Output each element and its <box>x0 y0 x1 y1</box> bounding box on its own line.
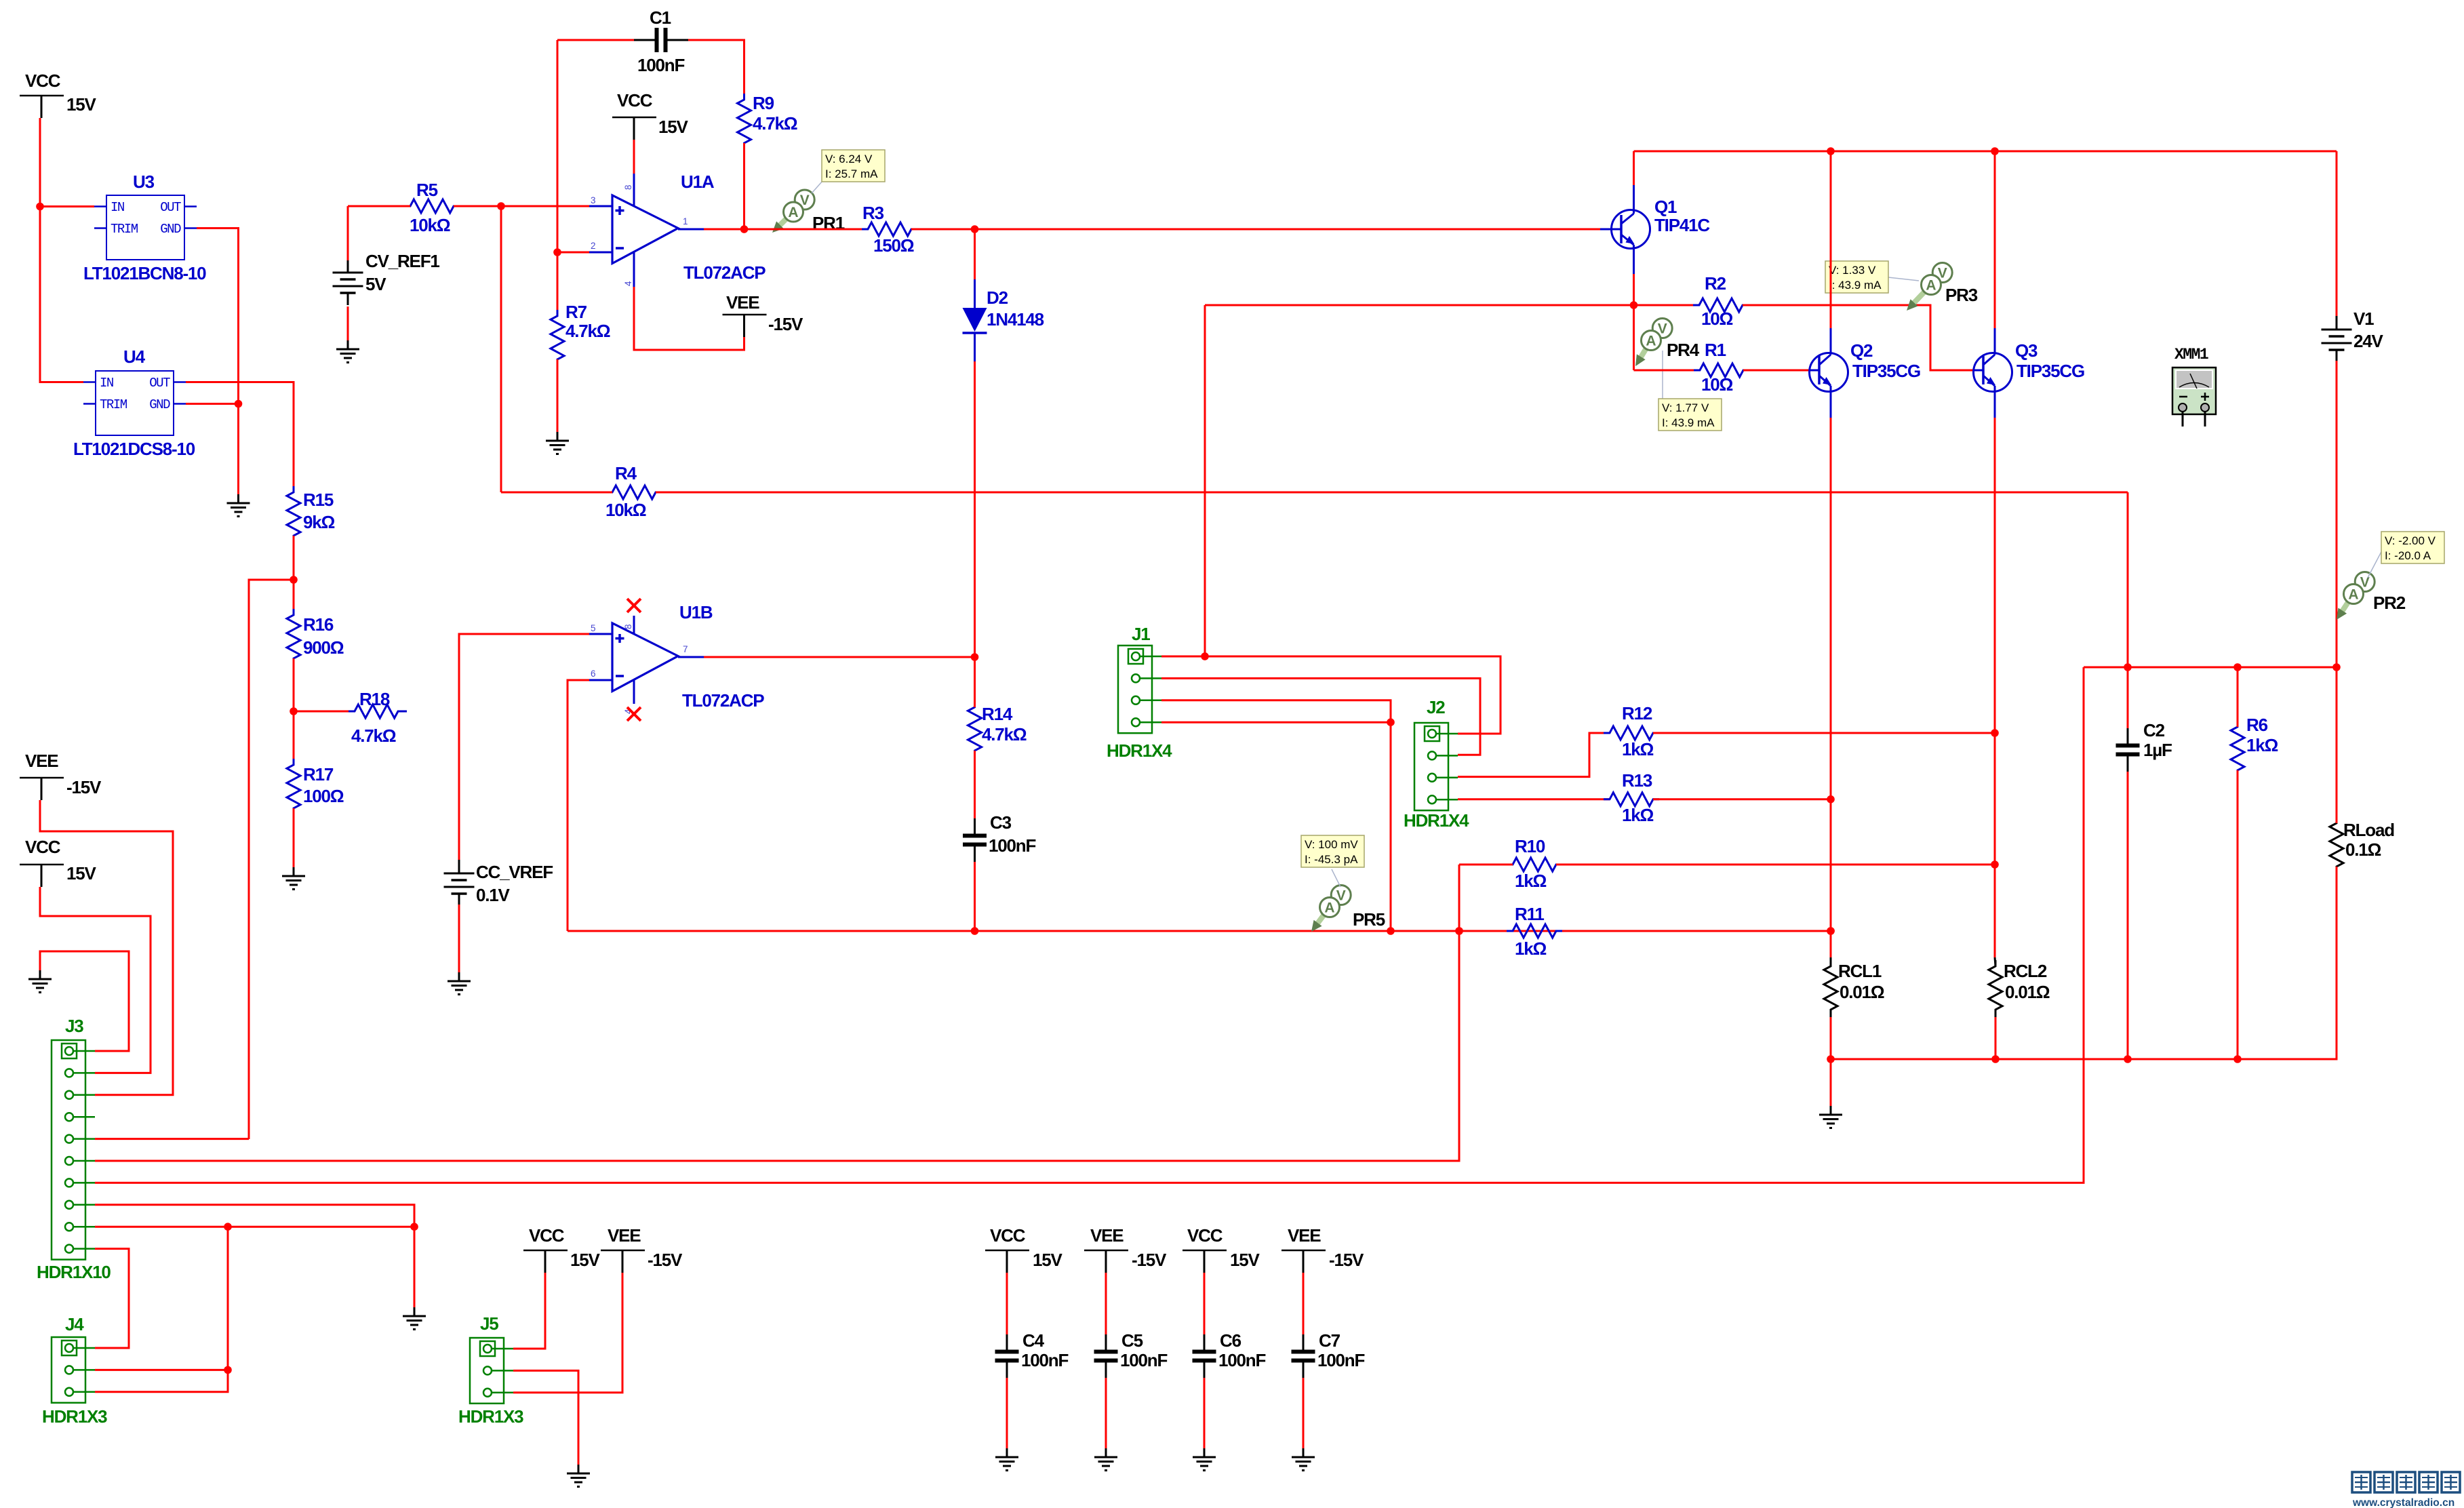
svg-text:6: 6 <box>591 669 596 679</box>
probe PR1 <box>772 190 845 233</box>
svg-text:100nF: 100nF <box>1218 1350 1265 1370</box>
svg-text:R17: R17 <box>303 764 334 785</box>
ground (C7) <box>1292 1448 1315 1471</box>
wire CC_VREF to ground <box>458 905 460 972</box>
op-amp U1B TL072ACP <box>589 602 764 714</box>
no-connect X on U1B pin4 <box>627 707 641 721</box>
wire J3.8 to ground <box>95 1205 418 1307</box>
battery V1 24V <box>2322 309 2384 362</box>
resistor R9 4.7k <box>738 93 797 149</box>
wire RCL1 to return bus <box>1830 1017 1832 1059</box>
svg-text:C2: C2 <box>2143 720 2165 740</box>
svg-text:RCL1: RCL1 <box>1838 961 1882 981</box>
resistor R1 10 <box>1694 340 1749 395</box>
svg-text:HDR1X10: HDR1X10 <box>37 1262 111 1282</box>
resistor R15 9k <box>287 486 335 542</box>
wire J2.4 to R13 <box>1458 798 1610 800</box>
voltage reference U4 LT1021DCS8-10 <box>73 346 195 459</box>
svg-text:GND: GND <box>160 222 181 237</box>
svg-text:VEE: VEE <box>1090 1225 1124 1246</box>
svg-text:9kΩ: 9kΩ <box>303 512 335 532</box>
wire RCL2 to return bus <box>1995 1017 1997 1059</box>
wire positive rail <box>1634 147 2337 155</box>
svg-text:100nF: 100nF <box>1120 1350 1167 1370</box>
svg-text:15V: 15V <box>66 94 97 115</box>
svg-text:100nF: 100nF <box>989 835 1035 856</box>
wire J3.6 to R10 <box>95 865 1463 1161</box>
wire U3.GND and U4.GND to ground <box>186 229 242 495</box>
wire R15 to R16, tap to J3.5 <box>249 536 298 1139</box>
resistor R2 10 <box>1693 273 1749 329</box>
wire Q1 emitter node down <box>1204 305 1206 656</box>
svg-text:HDR1X4: HDR1X4 <box>1107 740 1172 761</box>
svg-text:TL072ACP: TL072ACP <box>683 262 766 283</box>
svg-text:100nF: 100nF <box>1317 1350 1364 1370</box>
transistor Q1 TIP41C <box>1600 185 1710 274</box>
power VCC 15V (U1A) <box>612 90 689 140</box>
wire Q1 emitter to R2/R1 node <box>1630 274 1638 370</box>
power VCC 15V (top left) <box>20 71 97 118</box>
resistor R11 1k <box>1507 904 1562 959</box>
svg-text:100nF: 100nF <box>1021 1350 1068 1370</box>
svg-text:LT1021DCS8-10: LT1021DCS8-10 <box>73 439 195 459</box>
transistor Q2 TIP35CG <box>1810 328 1920 418</box>
transistor Q3 TIP35CG <box>1974 328 2084 418</box>
svg-text:V: 1.77 V: V: 1.77 V <box>1662 401 1709 414</box>
svg-text:7: 7 <box>683 644 688 654</box>
svg-text:I: 43.9 mA: I: 43.9 mA <box>1829 279 1882 292</box>
svg-text:VCC: VCC <box>1187 1225 1223 1246</box>
svg-text:R16: R16 <box>303 614 334 635</box>
svg-text:R14: R14 <box>982 704 1013 724</box>
wire J3.7 to output sense bus <box>95 667 2084 1183</box>
svg-text:PR2: PR2 <box>2373 593 2406 613</box>
resistor R13 1k <box>1604 770 1659 825</box>
ground (J5 pin2) <box>567 1465 590 1487</box>
wire output bus <box>2084 663 2341 671</box>
svg-text:1kΩ: 1kΩ <box>2246 735 2278 755</box>
node junction R5/U1A+ and feedback <box>497 202 589 492</box>
svg-text:15V: 15V <box>1230 1250 1260 1270</box>
svg-text:-15V: -15V <box>768 314 803 334</box>
svg-text:R10: R10 <box>1515 836 1545 856</box>
power VEE -15V (C7) <box>1281 1225 1364 1273</box>
svg-text:R9: R9 <box>753 93 774 113</box>
svg-text:R12: R12 <box>1622 703 1652 723</box>
svg-text:R4: R4 <box>615 463 637 483</box>
svg-text:VEE: VEE <box>25 751 58 771</box>
svg-text:IN: IN <box>111 200 124 215</box>
svg-text:4.7kΩ: 4.7kΩ <box>982 724 1027 745</box>
probe PR4 <box>1635 319 1700 367</box>
capacitor C4 100nF <box>995 1330 1069 1378</box>
wire supply to C6 <box>1204 1273 1206 1338</box>
svg-text:4: 4 <box>623 281 633 286</box>
power VEE -15V (left) <box>20 751 102 800</box>
wire R7 to ground <box>557 359 559 432</box>
svg-text:4.7kΩ: 4.7kΩ <box>351 726 396 746</box>
wire rail to Q3 collector <box>1994 151 1996 328</box>
resistor R18 4.7k (stub) <box>349 689 407 746</box>
svg-text:Q3: Q3 <box>2015 340 2038 361</box>
wire R17 to ground <box>293 808 295 867</box>
svg-text:TRIM: TRIM <box>111 222 138 237</box>
wire R4 feedback down to output bus <box>2127 492 2129 667</box>
svg-text:VEE: VEE <box>1288 1225 1321 1246</box>
wire J2.3 to R12 <box>1458 733 1610 777</box>
svg-text:XMM1: XMM1 <box>2174 346 2208 363</box>
svg-text:R13: R13 <box>1622 770 1652 791</box>
battery CC_VREF 0.1V <box>444 860 553 906</box>
resistor R6 1k <box>2231 667 2278 776</box>
svg-text:PR3: PR3 <box>1945 285 1978 305</box>
svg-text:10Ω: 10Ω <box>1701 309 1733 329</box>
wire VCC to U1A pin8 <box>633 140 635 174</box>
svg-text:V: 100 mV: V: 100 mV <box>1305 838 1358 851</box>
wire return bus left <box>1827 1055 2128 1063</box>
svg-text:Q1: Q1 <box>1654 197 1677 217</box>
svg-text:1kΩ: 1kΩ <box>1515 938 1547 959</box>
svg-text:U3: U3 <box>133 172 155 192</box>
svg-text:TIP41C: TIP41C <box>1654 215 1710 235</box>
op-amp U1A TL072ACP <box>589 172 766 287</box>
wire CC_VREF to U1B non-inverting input <box>459 634 589 860</box>
power VCC 15V (C6) <box>1183 1225 1260 1273</box>
probe PR2 reading box <box>2368 532 2444 578</box>
wire R9 to U1A output node <box>740 143 749 233</box>
resistor R4 10k <box>501 463 2128 520</box>
svg-text:C6: C6 <box>1220 1330 1241 1351</box>
probe PR3 reading box <box>1825 261 1919 293</box>
svg-text:15V: 15V <box>66 863 97 884</box>
wire C1 left to U1A inverting input <box>553 40 634 316</box>
svg-text:HDR1X3: HDR1X3 <box>458 1406 523 1427</box>
wire C6 to ground <box>1204 1378 1206 1448</box>
wire R2 to Q3 base <box>1743 305 1974 370</box>
wire U1B inverting input to sense bus <box>568 680 589 931</box>
svg-text:R11: R11 <box>1515 904 1544 924</box>
svg-text:R2: R2 <box>1705 273 1726 294</box>
wire U1B output to D2 node <box>704 656 975 658</box>
wire C4 to ground <box>1006 1378 1008 1448</box>
svg-text:HDR1X3: HDR1X3 <box>42 1406 107 1427</box>
svg-text:100Ω: 100Ω <box>303 786 344 806</box>
power VCC 15V (C4) <box>985 1225 1063 1273</box>
wire CV_REF1 to R5 <box>347 206 349 340</box>
svg-text:C4: C4 <box>1022 1330 1045 1351</box>
wire rail to Q1 collector <box>1633 151 1635 185</box>
no-connect X on U1B pin8 <box>627 599 641 612</box>
wire RCL1 ground branch <box>1830 1059 1832 1106</box>
wire VCC to U3.IN and U4.IN <box>36 118 94 382</box>
ground (J3 pin1) <box>28 970 52 993</box>
resistor R5 10k <box>348 180 501 235</box>
power VEE -15V (U1A) <box>723 292 803 337</box>
svg-text:TL072ACP: TL072ACP <box>682 690 764 711</box>
svg-text:TIP35CG: TIP35CG <box>2016 361 2084 381</box>
svg-text:R5: R5 <box>416 180 438 200</box>
svg-text:10kΩ: 10kΩ <box>410 215 450 235</box>
svg-text:A: A <box>2348 587 2358 603</box>
svg-text:5: 5 <box>591 623 596 633</box>
wire R1 to Q2 base <box>1743 370 1810 372</box>
svg-text:A: A <box>1324 900 1334 916</box>
ground (C4) <box>995 1448 1018 1471</box>
wire C5 to ground <box>1105 1378 1107 1448</box>
svg-text:0.1Ω: 0.1Ω <box>2345 839 2381 860</box>
wire current sense bus <box>568 927 1835 935</box>
svg-text:J1: J1 <box>1132 624 1150 644</box>
wire V1 to output bus <box>2336 361 2338 667</box>
connector J1 HDR1X4 <box>1107 624 1172 761</box>
svg-text:IN: IN <box>100 376 113 391</box>
resistor RCL2 0.01 <box>1989 957 2050 1017</box>
svg-text:4.7kΩ: 4.7kΩ <box>753 113 797 134</box>
wire RLoad to return bus <box>2128 867 2337 1059</box>
capacitor C6 100nF <box>1193 1330 1266 1378</box>
svg-text:4.7kΩ: 4.7kΩ <box>565 321 610 341</box>
probe PR3 <box>1907 263 1978 311</box>
svg-text:U1A: U1A <box>681 172 715 192</box>
svg-text:R18: R18 <box>359 689 390 709</box>
probe PR5 <box>1311 886 1385 932</box>
svg-text:VCC: VCC <box>529 1225 565 1246</box>
connector J5 HDR1X3 <box>458 1313 523 1427</box>
wire J1.1 to Q1 emitter node and J2.1 <box>1161 652 1501 734</box>
watermark logo <box>2352 1472 2460 1508</box>
connector J3 HDR1X10 <box>37 1016 111 1282</box>
wire U4.OUT to R15 <box>186 382 294 493</box>
wire C7 to ground <box>1303 1378 1305 1448</box>
svg-text:RLoad: RLoad <box>2343 820 2394 840</box>
ground (U3/U4 reference) <box>227 494 250 517</box>
capacitor C2 1uF <box>2116 667 2172 772</box>
wire C1 right / R9 top <box>688 40 744 100</box>
svg-text:OUT: OUT <box>149 376 170 391</box>
svg-text:C1: C1 <box>650 7 671 28</box>
capacitor C3 100nF <box>963 751 1035 862</box>
probe PR5 reading box <box>1301 835 1364 887</box>
svg-text:TIP35CG: TIP35CG <box>1852 361 1920 381</box>
svg-text:VEE: VEE <box>608 1225 641 1246</box>
svg-text:VEE: VEE <box>726 292 759 313</box>
svg-text:CV_REF1: CV_REF1 <box>365 251 439 271</box>
svg-text:I: 25.7 mA: I: 25.7 mA <box>825 167 878 180</box>
ground (CV_REF1) <box>336 340 359 363</box>
svg-text:15V: 15V <box>658 117 689 137</box>
connector J2 HDR1X4 <box>1404 697 1469 831</box>
ground (return) <box>1819 1106 1842 1128</box>
svg-text:R15: R15 <box>303 490 334 510</box>
svg-text:R1: R1 <box>1705 340 1726 360</box>
power VCC 15V (J5) <box>523 1225 601 1273</box>
capacitor C1 100nF <box>634 7 688 75</box>
svg-text:J2: J2 <box>1427 697 1445 717</box>
resistor R14 4.7k <box>968 657 1027 757</box>
svg-text:-15V: -15V <box>66 777 102 797</box>
svg-text:1µF: 1µF <box>2143 740 2172 760</box>
svg-text:OUT: OUT <box>160 200 181 215</box>
wire rail to V1 <box>2336 151 2338 316</box>
svg-text:C7: C7 <box>1319 1330 1340 1351</box>
power VCC 15V (left lower) <box>20 837 97 887</box>
svg-text:RCL2: RCL2 <box>2004 961 2047 981</box>
wire rail to Q2 collector <box>1830 151 1832 328</box>
power VEE -15V (J5) <box>601 1225 683 1273</box>
battery CV_REF1 5V <box>333 251 440 305</box>
svg-text:10Ω: 10Ω <box>1701 374 1733 395</box>
svg-text:HDR1X4: HDR1X4 <box>1404 810 1469 831</box>
svg-text:LT1021BCN8-10: LT1021BCN8-10 <box>83 263 206 283</box>
svg-text:CC_VREF: CC_VREF <box>476 862 553 882</box>
wire U1A pin4 to VEE <box>634 287 744 350</box>
svg-text:1kΩ: 1kΩ <box>1622 805 1654 825</box>
svg-text:C3: C3 <box>990 812 1012 833</box>
ground (J3 pin8) <box>403 1307 426 1330</box>
svg-text:R7: R7 <box>565 302 587 322</box>
probe PR4 reading box <box>1658 351 1722 431</box>
svg-text:J5: J5 <box>480 1313 498 1334</box>
wire VEE to J5.3 <box>513 1273 622 1393</box>
wire J1.2 to J2.2 <box>1161 678 1480 755</box>
svg-text:R3: R3 <box>862 203 884 223</box>
svg-text:8: 8 <box>623 184 633 190</box>
connector J4 HDR1X3 <box>42 1314 107 1427</box>
probe PR2 <box>2337 572 2406 620</box>
svg-text:-15V: -15V <box>1132 1250 1167 1270</box>
wire U1A output to R3 <box>704 229 868 231</box>
svg-text:GND: GND <box>149 397 170 412</box>
svg-text:15V: 15V <box>1033 1250 1063 1270</box>
svg-text:I: -45.3 pA: I: -45.3 pA <box>1305 853 1358 866</box>
capacitor C5 100nF <box>1094 1330 1168 1378</box>
svg-text:A: A <box>788 205 798 220</box>
wire Q2 emitter to RCL1 <box>1827 418 1835 957</box>
wire C3 to sense bus <box>971 862 979 935</box>
svg-text:1N4148: 1N4148 <box>987 309 1044 330</box>
probe PR1 reading box <box>812 150 885 193</box>
svg-text:0.01Ω: 0.01Ω <box>1840 982 1884 1002</box>
wire ground to J3.1 <box>40 951 129 1051</box>
wire J3.5 tap <box>95 1138 249 1140</box>
svg-text:2: 2 <box>591 241 596 251</box>
svg-text:www.crystalradio.cn: www.crystalradio.cn <box>2352 1497 2455 1508</box>
svg-text:PR5: PR5 <box>1353 909 1385 930</box>
svg-text:U4: U4 <box>123 346 146 367</box>
svg-text:1kΩ: 1kΩ <box>1515 871 1547 891</box>
resistor RLoad 0.1 <box>2330 667 2394 873</box>
svg-text:A: A <box>1646 334 1656 349</box>
svg-text:A: A <box>1926 278 1936 294</box>
svg-text:100nF: 100nF <box>637 55 684 75</box>
voltage reference U3 LT1021BCN8-10 <box>83 172 206 283</box>
svg-text:V1: V1 <box>2353 309 2374 329</box>
wire J1.4 join <box>1161 721 1391 723</box>
resistor RCL1 0.01 <box>1824 957 1884 1017</box>
ground (CC_VREF) <box>448 972 471 995</box>
wire R1 row <box>1634 370 1701 372</box>
wire J5.2 to ground <box>513 1370 578 1465</box>
svg-text:150Ω: 150Ω <box>873 235 914 256</box>
ground (R17) <box>282 867 305 890</box>
svg-text:0.01Ω: 0.01Ω <box>2005 982 2050 1002</box>
ground (C5) <box>1094 1448 1117 1471</box>
power VEE -15V (C5) <box>1084 1225 1167 1273</box>
svg-text:I: 43.9 mA: I: 43.9 mA <box>1662 416 1715 429</box>
svg-text:V: 6.24 V: V: 6.24 V <box>825 153 873 165</box>
svg-text:VCC: VCC <box>617 90 653 111</box>
svg-text:J3: J3 <box>65 1016 83 1036</box>
svg-text:D2: D2 <box>987 287 1008 308</box>
wire VCC to J5.1 <box>513 1273 545 1349</box>
svg-text:0.1V: 0.1V <box>476 885 511 905</box>
svg-text:V: -2.00 V: V: -2.00 V <box>2385 534 2436 547</box>
svg-text:V: 1.33 V: V: 1.33 V <box>1829 264 1876 277</box>
svg-text:3: 3 <box>591 195 596 205</box>
svg-text:J4: J4 <box>65 1314 84 1334</box>
wire J3.9 to J4.2/J4.3 <box>95 1223 414 1391</box>
resistor R17 100 <box>287 759 344 814</box>
svg-text:24V: 24V <box>2353 331 2384 351</box>
ground (R7) <box>546 432 569 454</box>
wire Q3 emitter to RCL2 <box>1994 418 1996 957</box>
svg-text:C5: C5 <box>1121 1330 1143 1351</box>
wire R10 to Q3 emitter <box>1556 860 1999 869</box>
svg-text:VCC: VCC <box>25 71 61 91</box>
wire VEE to J3.3 <box>40 800 173 1095</box>
ground (C6) <box>1193 1448 1216 1471</box>
svg-text:-15V: -15V <box>1329 1250 1364 1270</box>
multimeter XMM1 <box>2172 346 2216 426</box>
wire supply to C7 <box>1303 1273 1305 1338</box>
wire VCC to J3.2 <box>40 887 151 1073</box>
svg-text:15V: 15V <box>570 1250 601 1270</box>
wire J1.3 to sense bus <box>1161 700 1395 931</box>
svg-text:R6: R6 <box>2246 715 2268 735</box>
svg-text:10kΩ: 10kΩ <box>605 500 646 520</box>
svg-text:8: 8 <box>623 624 633 629</box>
svg-text:1: 1 <box>683 216 688 226</box>
svg-text:Q2: Q2 <box>1850 340 1873 361</box>
resistor R16 900 <box>287 609 344 664</box>
diode D2 1N4148 <box>963 229 1044 361</box>
resistor R7 4.7k <box>551 302 610 365</box>
svg-text:I: -20.0 A: I: -20.0 A <box>2385 549 2431 562</box>
wire supply to C5 <box>1105 1273 1107 1338</box>
wire R12 to Q3 emitter <box>1653 729 1999 737</box>
wire R6 to return bus <box>2233 770 2242 1063</box>
resistor R12 1k <box>1604 703 1659 759</box>
resistor R3 150 <box>862 203 917 256</box>
capacitor C7 100nF <box>1292 1330 1365 1378</box>
wire J3.10 to J4.1 <box>95 1249 129 1348</box>
svg-text:PR4: PR4 <box>1667 340 1700 360</box>
svg-text:TRIM: TRIM <box>100 397 127 412</box>
wire C2 to return bus <box>2124 772 2132 1063</box>
wire R13 to Q2 emitter <box>1653 795 1835 803</box>
svg-text:-15V: -15V <box>648 1250 683 1270</box>
svg-text:5V: 5V <box>365 274 386 294</box>
wire R16 to R17, tap to R18 <box>290 658 355 765</box>
wire R3 to Q1 base <box>911 225 1600 233</box>
wire D2 cathode down to U1B output node <box>971 361 979 661</box>
svg-text:VCC: VCC <box>25 837 61 857</box>
svg-text:U1B: U1B <box>679 602 713 622</box>
wire supply to C4 <box>1006 1273 1008 1338</box>
svg-text:900Ω: 900Ω <box>303 637 344 658</box>
svg-text:1kΩ: 1kΩ <box>1622 739 1654 759</box>
resistor R10 1k <box>1459 836 1562 891</box>
